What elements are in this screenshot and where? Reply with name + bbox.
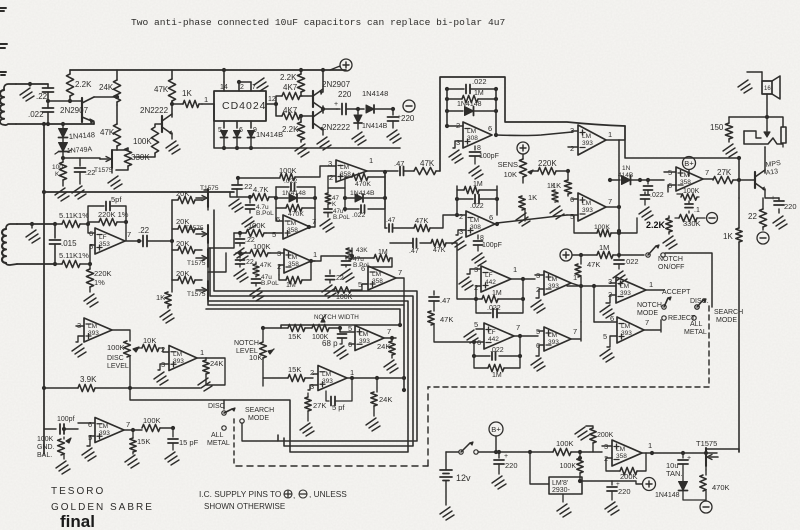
svg-text:4.7K: 4.7K <box>253 185 268 194</box>
capacitor 220 (reg out) <box>611 481 613 485</box>
svg-text:100pF: 100pF <box>482 242 502 249</box>
wire y400 row <box>130 388 224 409</box>
svg-text:SEARCH: SEARCH <box>245 407 274 414</box>
resistor 2.2K (U2 bottom) <box>300 116 302 122</box>
svg-text:B.PoL: B.PoL <box>256 210 274 217</box>
svg-text:220: 220 <box>784 202 797 211</box>
resistor 470K feedback A1 <box>276 207 286 209</box>
wire disc box <box>206 358 225 385</box>
op-amp U3 LM308 <box>463 122 492 148</box>
svg-text:.015: .015 <box>61 239 77 248</box>
resistor 220K (sens to comparator) <box>538 167 556 174</box>
ground 47u A3 <box>340 269 354 282</box>
svg-text:1: 1 <box>608 130 612 139</box>
FET T1575 (osc gate) <box>111 150 113 168</box>
resistor 47K (Q2 collector) <box>171 70 173 79</box>
left main vertical bus <box>43 124 45 454</box>
plus terminal reg out <box>643 478 656 491</box>
svg-text:DISC.: DISC. <box>690 298 709 305</box>
junction Q2 collector <box>170 102 174 106</box>
svg-text:1N: 1N <box>622 165 631 172</box>
ground pin6 U10 <box>531 358 545 371</box>
svg-text:+: + <box>689 159 694 168</box>
resistor 47K (A2 bias) <box>255 262 257 264</box>
svg-text:7: 7 <box>516 323 520 332</box>
svg-text:.47: .47 <box>386 217 396 224</box>
svg-text:, UNLESS: , UNLESS <box>309 489 347 499</box>
resistor 5.11K 1% (lower) <box>55 263 62 265</box>
B+ terminal audio <box>683 157 696 170</box>
svg-text:LM: LM <box>582 133 591 140</box>
capacitor .22 coupling RX <box>139 240 141 242</box>
capacitor 4.7u BiPol (ch1) <box>249 197 251 203</box>
svg-text:1K: 1K <box>182 89 192 98</box>
resistor 100K (A3 in series) <box>334 287 351 293</box>
resistor 1K (U4b load) <box>552 190 558 202</box>
svg-text:MODE: MODE <box>637 310 658 317</box>
svg-text:2N2222: 2N2222 <box>140 106 169 115</box>
svg-text:GND.: GND. <box>37 444 55 451</box>
resistor 200K feedback U16 <box>620 467 637 474</box>
switch NOTCH ON/OFF <box>619 254 644 256</box>
wire notch level top <box>262 328 264 342</box>
ground 100pF U3 <box>469 166 483 179</box>
B+ terminal supply <box>489 422 503 436</box>
capacitor .22 (osc bias) <box>79 158 81 166</box>
svg-text:SENS: SENS <box>498 160 518 169</box>
resistor 3.9K (threshold) <box>44 387 78 389</box>
svg-text:470K: 470K <box>712 483 730 492</box>
dashed line to all-metal bottom <box>428 386 709 388</box>
resistor 1K (to CD4024) <box>183 100 199 107</box>
junction osc caps <box>46 99 50 103</box>
ground .22 A2 <box>234 269 248 282</box>
svg-text:T1575: T1575 <box>185 225 204 232</box>
wire + to 1M <box>572 254 597 256</box>
ground .22 A0 <box>229 199 243 212</box>
capacitor 47u + shunt <box>392 109 394 115</box>
svg-text:3: 3 <box>608 277 612 286</box>
pin 2 CD4024 <box>239 82 251 91</box>
TX coil L1 <box>4 84 16 90</box>
svg-text:LM: LM <box>582 200 591 207</box>
svg-text:1: 1 <box>369 156 373 165</box>
svg-text:1M: 1M <box>473 181 483 188</box>
svg-text:5: 5 <box>272 230 276 239</box>
svg-text:27K: 27K <box>313 401 326 410</box>
ground U14 <box>154 372 168 385</box>
svg-text:10K: 10K <box>504 170 517 179</box>
capacitor 47u BiPol (A2) <box>252 279 261 283</box>
transistor Q5 MPS A13 <box>739 179 755 181</box>
svg-text:LEVEL: LEVEL <box>107 363 129 370</box>
pot 100K GND BAL <box>63 437 65 439</box>
resistor 24K (U11 out) <box>391 338 393 341</box>
svg-text:393: 393 <box>582 207 593 214</box>
resistor 2.2K (Q1 collector) <box>69 70 71 74</box>
ground 1N414B <box>352 132 366 145</box>
svg-text:DISC: DISC <box>208 403 225 410</box>
svg-text:+: + <box>687 455 691 462</box>
svg-text:2: 2 <box>240 84 244 91</box>
op-amp U14 LM393 (disc comp b) <box>169 346 197 371</box>
svg-text:I.C. SUPPLY PINS TO: I.C. SUPPLY PINS TO <box>199 489 282 499</box>
junction notch node <box>617 253 621 257</box>
pin 1 U13 out <box>112 330 130 341</box>
ground 27K U12 <box>300 423 314 436</box>
svg-text:2.2K: 2.2K <box>282 125 299 134</box>
svg-text:7: 7 <box>127 230 131 239</box>
resistor 2.2K (notch, bold) <box>668 216 670 218</box>
svg-text:100K: 100K <box>133 137 152 146</box>
feedback box verticals A1 <box>276 187 315 223</box>
svg-text:1: 1 <box>350 368 354 377</box>
resistor 1M feedback A2 <box>279 275 286 280</box>
op-amp U5 LM358 audio <box>676 167 703 191</box>
op-amp A3 LM358 <box>368 266 396 290</box>
capacitor 10u TAN <box>682 453 684 458</box>
ground Q2 emitter <box>171 133 173 139</box>
svg-text:NOTCH: NOTCH <box>234 340 259 347</box>
svg-text:.47: .47 <box>409 248 419 255</box>
svg-text:3: 3 <box>328 159 332 168</box>
wire Q1 collector to 24K node <box>94 96 117 98</box>
ground T1575 source <box>108 176 122 189</box>
svg-text:2: 2 <box>310 368 314 377</box>
svg-text:5.11K1%: 5.11K1% <box>59 251 89 260</box>
bus bundle line E <box>206 309 400 328</box>
ground GND BAL pot <box>56 461 70 474</box>
svg-text:4K7: 4K7 <box>283 83 298 92</box>
wire Q5 collector to jack <box>764 147 766 173</box>
wire FET drain to right bus <box>706 448 739 450</box>
jack sleeve contact <box>781 127 786 143</box>
diode 1N4148 (osc clamp) <box>62 124 64 128</box>
op-amp U12 LM393 (notch osc b) <box>318 366 347 391</box>
wire U3 out to U4 LM393 pin3 <box>496 132 572 136</box>
svg-text:1N4148: 1N4148 <box>655 492 680 499</box>
resistor 47K (U7 pin2) <box>414 224 430 231</box>
svg-text:393: 393 <box>582 140 593 147</box>
ground .22 A1 <box>234 248 248 261</box>
junction jack bus <box>765 115 769 119</box>
wire left loop to LM308-1 <box>440 77 625 171</box>
capacitor 5pf feedback U6 <box>88 206 104 224</box>
dashed line disc mode <box>233 419 235 466</box>
pin 7 CD4024 with ground <box>250 82 252 91</box>
ground 220K 1% <box>84 294 98 307</box>
capacitor 100pf (gnd bal) <box>44 428 56 430</box>
resistor 100K (A1 input) <box>234 232 246 234</box>
svg-text:100pf: 100pf <box>57 416 75 423</box>
wire disc switch to bundle <box>242 423 278 441</box>
svg-text:20K: 20K <box>176 269 189 278</box>
junction right bus audio <box>737 156 741 160</box>
svg-text:15K: 15K <box>288 365 301 374</box>
wire bus to audio section <box>625 126 739 198</box>
svg-text:6: 6 <box>488 124 492 133</box>
resistor 100K (Q2 base) <box>151 127 158 153</box>
svg-text:220K: 220K <box>538 159 557 168</box>
svg-text:.22: .22 <box>138 226 150 235</box>
svg-text:.022: .022 <box>624 257 639 266</box>
pot 100K notch width <box>312 324 329 331</box>
ground 220 reg <box>605 502 619 515</box>
wire Q5 emitter down <box>765 189 779 198</box>
svg-text:1: 1 <box>513 265 517 274</box>
pin 14 CD4024 <box>223 82 225 91</box>
svg-text:ALL: ALL <box>690 321 703 328</box>
scan edge marks <box>0 8 7 75</box>
resistor 220K 1% (U6 bias) <box>89 264 91 269</box>
bottom rail under CD4024 <box>214 104 400 148</box>
capacitor .47 (input) <box>385 170 398 172</box>
resistor 470K feedback A0 <box>345 176 352 178</box>
svg-text:1K: 1K <box>528 193 537 202</box>
svg-text:T1575: T1575 <box>187 291 206 298</box>
minus terminal (220 cap) far left <box>403 100 415 112</box>
svg-text:1N4148: 1N4148 <box>362 89 388 98</box>
wire zener node to FET gate <box>63 158 100 159</box>
resistor 15K (notch width) <box>281 327 288 329</box>
svg-text:68 p: 68 p <box>322 339 338 348</box>
resistor 20K #3 <box>172 249 178 251</box>
wire pin14 to top bus <box>223 70 225 82</box>
ground battery <box>440 507 454 520</box>
svg-text:3.9K: 3.9K <box>80 375 97 384</box>
svg-text:1N4148: 1N4148 <box>69 130 96 141</box>
capacitor audio shunt <box>647 180 649 184</box>
svg-text:24K: 24K <box>377 342 390 351</box>
op-amp A5 LF442 b <box>484 323 514 349</box>
pot 100K DISC LEVEL <box>124 341 131 357</box>
regulator LM2930 box <box>549 477 582 494</box>
ground 100K osc <box>55 188 69 201</box>
svg-text:METAL: METAL <box>684 329 707 336</box>
svg-text:1K: 1K <box>156 293 165 302</box>
pin 12 CD4024 <box>266 103 276 105</box>
resistor 20K #2 <box>172 228 178 230</box>
resistor 5.11K 1% (upper) <box>55 223 62 225</box>
transistor Q1 2N2907 oscillator <box>81 98 83 122</box>
svg-text:47K: 47K <box>587 260 600 269</box>
svg-text:1: 1 <box>200 348 204 357</box>
op-amp U4 LM393 a <box>578 125 606 155</box>
ground at TX coil top <box>29 84 31 86</box>
wire U12 out to bundle <box>377 377 404 379</box>
wire U4a node to U8 <box>567 285 594 287</box>
resistor 20K #4 <box>172 279 178 281</box>
svg-text:200K: 200K <box>620 472 638 481</box>
svg-text:3: 3 <box>459 227 463 236</box>
svg-text:330K: 330K <box>683 219 701 228</box>
svg-text:TESORO: TESORO <box>51 486 105 497</box>
svg-text:27K: 27K <box>717 168 732 177</box>
svg-text:20K: 20K <box>176 239 189 248</box>
switch power <box>446 451 459 453</box>
svg-text:1%: 1% <box>94 278 105 287</box>
svg-text:TAN.: TAN. <box>666 469 683 478</box>
svg-text:1N414B: 1N414B <box>256 130 283 139</box>
svg-text:DISC: DISC <box>107 355 124 362</box>
svg-text:10K: 10K <box>143 336 156 345</box>
resistor 1K (right bus) <box>736 228 742 242</box>
resistor 47K (A0 bias) <box>327 188 329 193</box>
pin 9 CD4024 + clamp diode <box>250 121 252 128</box>
resistor 24K (disc) <box>205 358 207 360</box>
svg-text:.22: .22 <box>242 182 252 191</box>
wire reg node <box>580 480 612 482</box>
svg-text:100K: 100K <box>253 242 271 251</box>
svg-text:100K: 100K <box>594 224 610 231</box>
svg-text:7: 7 <box>608 197 612 206</box>
svg-text:24K: 24K <box>99 83 114 92</box>
capacitor .22 (A3 input) <box>329 270 331 274</box>
resistor 200K (U16 top shunt) <box>575 427 589 440</box>
ground 220 supply <box>492 476 506 489</box>
wire disc level to 3.9K node <box>129 387 131 389</box>
svg-text:SHOWN OTHERWISE: SHOWN OTHERWISE <box>204 502 285 511</box>
resistor 470K (battery check) <box>700 475 706 491</box>
svg-text:.022: .022 <box>650 192 664 199</box>
ground 24K disc <box>198 378 212 391</box>
svg-text:24K: 24K <box>210 359 223 368</box>
op-amp U7 LM308 <box>466 211 495 237</box>
svg-text:47K: 47K <box>260 262 272 269</box>
capacitor .22 (osc) <box>47 84 49 88</box>
op-amp U13 LM393 (disc comp a) <box>84 318 112 342</box>
capacitor 68p <box>339 328 341 332</box>
svg-text:12v: 12v <box>456 473 471 483</box>
resistor 100K (notch lp) <box>677 193 681 195</box>
svg-text:1M: 1M <box>474 90 484 97</box>
svg-text:.022: .022 <box>284 178 297 185</box>
capacitor .022 feedback U3 <box>447 88 464 90</box>
op-amp A1 LM358 <box>283 215 310 239</box>
svg-text:47K: 47K <box>433 247 446 254</box>
plus terminal notch bias <box>560 249 572 261</box>
capacitor 220 coupling (audio osc) <box>337 108 340 110</box>
op-amp U8 LM393 (notch comp A) <box>616 277 646 303</box>
svg-text:7: 7 <box>645 318 649 327</box>
wire reg in <box>530 452 549 484</box>
svg-text:100K: 100K <box>556 439 574 448</box>
svg-text:100: 100 <box>52 164 63 171</box>
resistor 1K (U7 out load) <box>519 196 525 210</box>
resistor 15K shunt <box>132 430 134 438</box>
svg-text:15K: 15K <box>137 437 150 446</box>
resistor 43K (A3 bias) <box>351 248 353 256</box>
svg-text:1N414B: 1N414B <box>362 123 388 130</box>
svg-text:47K: 47K <box>154 85 169 94</box>
op-amp U15 LM393 (gnd bal) <box>95 418 124 443</box>
svg-text:NOTCH WIDTH: NOTCH WIDTH <box>314 314 359 321</box>
resistor 4K7 upper <box>276 96 282 104</box>
svg-text:B.PoL: B.PoL <box>333 214 350 221</box>
wire row1 to U7 pin2 <box>393 227 414 229</box>
capacitor 47u BiPol (A3) <box>345 256 347 259</box>
op-amp A2 LM358 (second filter) <box>284 249 311 273</box>
svg-text:100K: 100K <box>279 166 297 175</box>
top supply bus <box>70 69 346 71</box>
sens pot +V terminal <box>517 142 529 154</box>
resistor 10K (disc comp) <box>136 347 142 349</box>
feedback box verticals U7 <box>457 186 497 215</box>
resistor 330K (notch lp) <box>675 217 679 219</box>
svg-text:ALL: ALL <box>211 432 224 439</box>
capacitor .022 feedback A0 <box>345 208 359 210</box>
svg-text:.47: .47 <box>394 159 404 168</box>
svg-text:100K: 100K <box>107 343 125 352</box>
ground 2.2K notch <box>663 236 677 249</box>
ground 68p <box>334 346 348 359</box>
svg-text:100K: 100K <box>248 221 266 230</box>
svg-text:470K: 470K <box>355 181 371 188</box>
speaker <box>762 81 772 94</box>
svg-text:1M: 1M <box>599 243 609 252</box>
svg-text:1: 1 <box>648 441 652 450</box>
svg-text:22: 22 <box>748 212 757 221</box>
svg-text:220K: 220K <box>94 269 112 278</box>
ground .22 osc <box>72 186 86 199</box>
pin 5 CD4024 + clamp diode <box>223 121 225 128</box>
ground pin3 U3 <box>449 150 463 163</box>
capacitor .22 (A0 input shunt) <box>237 178 239 184</box>
wire notch switch to search bus <box>665 253 712 307</box>
junction U6 input node <box>86 222 90 226</box>
bus bundle line D <box>208 302 404 390</box>
svg-text:12: 12 <box>268 96 276 103</box>
svg-text:1N4148: 1N4148 <box>457 101 482 108</box>
svg-text:1: 1 <box>649 280 653 289</box>
resistor 1M feedback U7 <box>457 189 464 191</box>
op-amp U9 LM393 (demod comp) <box>544 271 571 295</box>
bus bundle line A <box>214 210 417 441</box>
minus terminal notch <box>707 213 718 224</box>
resistor 100K feedback U4b <box>574 216 597 233</box>
ground output cap <box>387 130 401 143</box>
svg-text:.22: .22 <box>334 275 344 282</box>
IC U1 CD4024 <box>214 91 266 121</box>
pin 6 CD4024 + clamp diode <box>236 121 238 128</box>
capacitor 15pF shunt <box>172 428 174 437</box>
ground pin5 U8b <box>600 349 614 362</box>
op-amp A4 LF442 <box>481 266 511 292</box>
pot 10K notch level <box>260 342 267 358</box>
svg-text:6: 6 <box>88 420 92 429</box>
resistor 1M feedback A4 <box>476 298 482 300</box>
RX coil L2 <box>6 224 17 229</box>
junction sens node <box>566 169 570 173</box>
svg-text:.22: .22 <box>36 92 48 101</box>
svg-text:ACCEPT: ACCEPT <box>662 289 691 296</box>
ground 220 cap <box>773 216 787 229</box>
svg-text:ON/OFF: ON/OFF <box>658 264 684 271</box>
svg-text:2930-: 2930- <box>552 487 571 494</box>
svg-text:+: + <box>334 101 338 108</box>
svg-text:+: + <box>504 453 508 460</box>
ground Q4 emitter <box>322 129 324 135</box>
capacitor .022 feedback A4 <box>476 299 491 313</box>
switch ACCEPT/REJECT (notch mode) <box>662 305 666 309</box>
op-amp U16 LM358 (supply splitter) <box>612 440 642 466</box>
ground 1K U7 <box>516 213 530 226</box>
svg-text:2.2K: 2.2K <box>75 80 92 89</box>
svg-text:15K: 15K <box>288 332 301 341</box>
svg-text:7: 7 <box>705 168 709 177</box>
junction Q3/Q4 emitters <box>323 106 337 113</box>
svg-text:8: 8 <box>477 145 481 152</box>
